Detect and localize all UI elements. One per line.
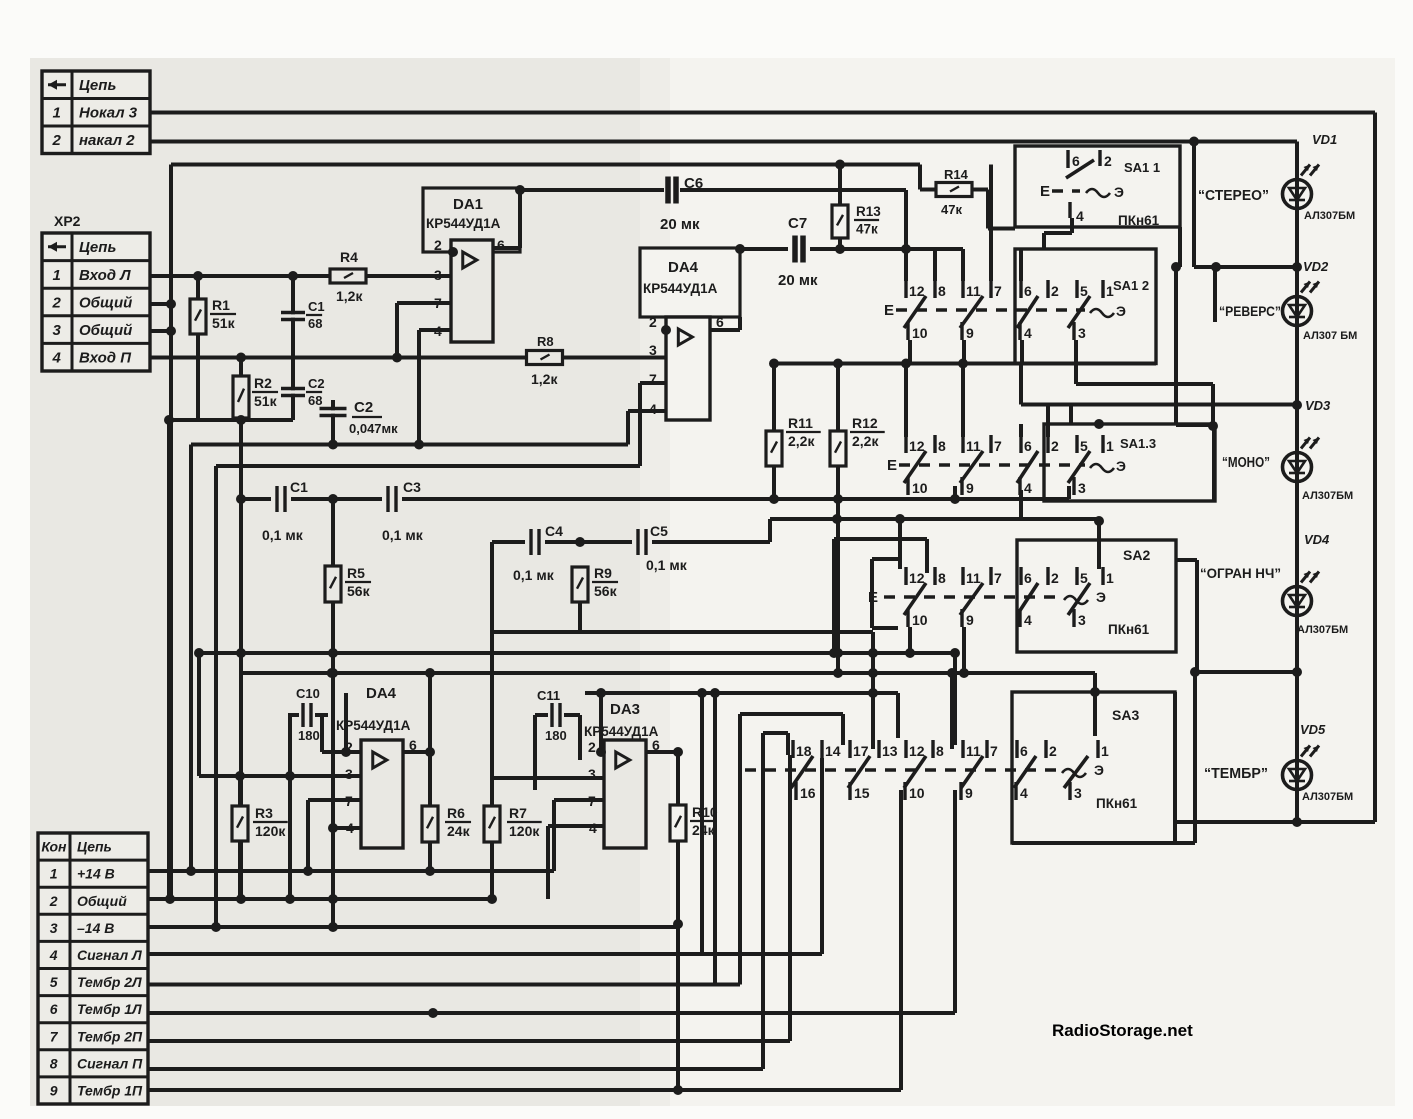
svg-text:Вход П: Вход П xyxy=(79,350,132,367)
svg-text:ХР2: ХР2 xyxy=(54,213,81,229)
svg-text:Нокал 3: Нокал 3 xyxy=(79,105,138,122)
svg-text:SA1 1: SA1 1 xyxy=(1124,160,1160,175)
svg-text:R1: R1 xyxy=(212,297,230,313)
svg-text:56к: 56к xyxy=(594,583,618,599)
svg-text:12: 12 xyxy=(909,743,925,759)
svg-text:КР544УД1А: КР544УД1А xyxy=(584,724,659,739)
svg-text:0,1 мк: 0,1 мк xyxy=(513,567,555,583)
svg-text:Общий: Общий xyxy=(79,322,132,339)
svg-text:С1: С1 xyxy=(308,299,325,314)
svg-text:6: 6 xyxy=(1024,438,1032,454)
svg-text:8: 8 xyxy=(938,283,946,299)
svg-text:8: 8 xyxy=(938,438,946,454)
svg-text:13: 13 xyxy=(882,743,898,759)
svg-text:5: 5 xyxy=(1080,570,1088,586)
svg-text:15: 15 xyxy=(854,785,870,801)
svg-text:4: 4 xyxy=(52,350,62,367)
svg-text:КР544УД1А: КР544УД1А xyxy=(643,281,718,296)
svg-text:11: 11 xyxy=(966,570,981,586)
svg-text:6: 6 xyxy=(1072,153,1080,169)
svg-text:18: 18 xyxy=(796,743,812,759)
svg-text:2: 2 xyxy=(434,237,442,253)
svg-text:DA4: DA4 xyxy=(366,685,397,702)
svg-text:R6: R6 xyxy=(447,805,465,821)
svg-text:Е: Е xyxy=(884,302,894,319)
svg-text:DA3: DA3 xyxy=(610,701,640,718)
svg-text:2: 2 xyxy=(1051,283,1059,299)
svg-text:2: 2 xyxy=(52,294,62,311)
svg-text:6: 6 xyxy=(1024,570,1032,586)
svg-text:8: 8 xyxy=(938,570,946,586)
svg-text:9: 9 xyxy=(966,325,974,341)
svg-text:Кон: Кон xyxy=(41,839,67,855)
svg-text:АЛ307БМ: АЛ307БМ xyxy=(1297,624,1348,636)
svg-text:9: 9 xyxy=(966,612,974,628)
svg-text:120к: 120к xyxy=(255,823,286,839)
svg-text:С2: С2 xyxy=(308,376,325,391)
svg-text:R12: R12 xyxy=(852,415,878,431)
svg-text:16: 16 xyxy=(800,785,816,801)
svg-text:С7: С7 xyxy=(788,215,807,232)
svg-text:2: 2 xyxy=(649,314,657,330)
svg-text:51к: 51к xyxy=(254,393,278,409)
svg-text:7: 7 xyxy=(50,1028,59,1044)
svg-text:0,047мк: 0,047мк xyxy=(349,421,398,436)
svg-text:4: 4 xyxy=(49,947,58,963)
svg-text:68: 68 xyxy=(308,316,322,331)
svg-text:180: 180 xyxy=(298,728,320,743)
svg-text:7: 7 xyxy=(994,570,1002,586)
svg-text:VD2: VD2 xyxy=(1303,259,1329,274)
svg-text:4: 4 xyxy=(1020,785,1028,801)
svg-text:3: 3 xyxy=(50,920,58,936)
svg-text:4: 4 xyxy=(1024,612,1032,628)
svg-text:0,1 мк: 0,1 мк xyxy=(382,527,424,543)
svg-text:+14 В: +14 В xyxy=(77,866,115,882)
svg-text:10: 10 xyxy=(909,785,925,801)
svg-text:КР544УД1А: КР544УД1А xyxy=(426,216,501,231)
svg-text:SA3: SA3 xyxy=(1112,707,1139,723)
svg-text:АЛ307 БМ: АЛ307 БМ xyxy=(1303,330,1357,342)
svg-text:“РЕВЕРС”: “РЕВЕРС” xyxy=(1219,304,1281,319)
svg-text:Тембр 1П: Тембр 1П xyxy=(77,1082,143,1098)
svg-text:накал 2: накал 2 xyxy=(79,132,135,149)
svg-text:0,1 мк: 0,1 мк xyxy=(646,557,688,573)
svg-text:Тембр 2Л: Тембр 2Л xyxy=(77,974,142,990)
svg-text:“СТЕРЕО”: “СТЕРЕО” xyxy=(1198,188,1269,204)
svg-text:5: 5 xyxy=(1080,283,1088,299)
svg-text:Э: Э xyxy=(1116,458,1126,474)
svg-text:С10: С10 xyxy=(296,686,320,701)
svg-text:3: 3 xyxy=(1078,480,1086,496)
svg-text:17: 17 xyxy=(853,743,869,759)
svg-text:8: 8 xyxy=(936,743,944,759)
svg-text:АЛ307БМ: АЛ307БМ xyxy=(1302,490,1353,502)
svg-text:С1: С1 xyxy=(290,479,308,495)
svg-text:SA2: SA2 xyxy=(1123,547,1150,563)
svg-text:12: 12 xyxy=(909,283,925,299)
svg-text:4: 4 xyxy=(1024,325,1032,341)
svg-text:Е: Е xyxy=(1040,183,1050,200)
svg-text:14: 14 xyxy=(825,743,841,759)
svg-text:12: 12 xyxy=(909,570,925,586)
svg-text:DA1: DA1 xyxy=(453,196,483,213)
svg-text:7: 7 xyxy=(994,438,1002,454)
svg-text:С6: С6 xyxy=(684,175,703,192)
svg-text:SA1.3: SA1.3 xyxy=(1120,436,1156,451)
svg-text:1: 1 xyxy=(1106,438,1114,454)
svg-text:Сигнал П: Сигнал П xyxy=(77,1055,143,1071)
svg-text:6: 6 xyxy=(716,314,724,330)
svg-text:11: 11 xyxy=(966,743,981,759)
svg-text:“ОГРАН НЧ”: “ОГРАН НЧ” xyxy=(1200,566,1281,581)
svg-text:Общий: Общий xyxy=(79,294,132,311)
svg-text:0,1 мк: 0,1 мк xyxy=(262,527,304,543)
svg-text:6: 6 xyxy=(1020,743,1028,759)
svg-text:1: 1 xyxy=(53,267,61,284)
svg-text:“МОНО”: “МОНО” xyxy=(1222,455,1270,471)
svg-text:2: 2 xyxy=(1049,743,1057,759)
svg-text:10: 10 xyxy=(912,612,928,628)
svg-text:“ТЕМБР”: “ТЕМБР” xyxy=(1204,766,1268,782)
svg-text:10: 10 xyxy=(912,325,928,341)
svg-text:С3: С3 xyxy=(403,479,421,495)
svg-text:2: 2 xyxy=(1104,153,1112,169)
svg-text:VD3: VD3 xyxy=(1305,398,1331,413)
svg-text:R3: R3 xyxy=(255,805,273,821)
svg-text:2,2к: 2,2к xyxy=(788,433,815,449)
svg-text:9: 9 xyxy=(965,785,973,801)
svg-text:С11: С11 xyxy=(537,688,560,703)
svg-text:Цепь: Цепь xyxy=(79,239,116,256)
svg-text:9: 9 xyxy=(50,1082,58,1098)
svg-text:3: 3 xyxy=(1074,785,1082,801)
svg-text:51к: 51к xyxy=(212,315,236,331)
svg-text:47к: 47к xyxy=(856,222,878,237)
svg-text:R13: R13 xyxy=(856,204,881,219)
svg-text:2: 2 xyxy=(1051,438,1059,454)
svg-text:Сигнал Л: Сигнал Л xyxy=(77,947,142,963)
svg-text:ПКн61: ПКн61 xyxy=(1108,622,1150,637)
svg-text:2,2к: 2,2к xyxy=(852,433,879,449)
svg-text:SA1 2: SA1 2 xyxy=(1113,278,1149,293)
svg-text:Вход Л: Вход Л xyxy=(79,267,131,284)
svg-text:1,2к: 1,2к xyxy=(336,288,363,304)
svg-text:11: 11 xyxy=(966,438,981,454)
svg-text:ПКн61: ПКн61 xyxy=(1118,213,1160,228)
svg-text:2: 2 xyxy=(52,132,62,149)
svg-text:8: 8 xyxy=(50,1055,58,1071)
svg-text:2: 2 xyxy=(588,739,596,755)
svg-text:1: 1 xyxy=(1106,570,1114,586)
svg-text:Цепь: Цепь xyxy=(77,839,112,855)
svg-text:DA4: DA4 xyxy=(668,259,699,276)
svg-text:1: 1 xyxy=(53,105,61,122)
svg-text:5: 5 xyxy=(1080,438,1088,454)
svg-text:R7: R7 xyxy=(509,805,527,821)
svg-text:4: 4 xyxy=(1024,480,1032,496)
svg-text:6: 6 xyxy=(1024,283,1032,299)
svg-text:3: 3 xyxy=(1078,612,1086,628)
svg-text:VD5: VD5 xyxy=(1300,722,1326,737)
svg-text:6: 6 xyxy=(497,237,505,253)
svg-text:3: 3 xyxy=(53,322,62,339)
svg-text:180: 180 xyxy=(545,728,567,743)
svg-text:R4: R4 xyxy=(340,249,358,265)
svg-text:Э: Э xyxy=(1094,762,1104,778)
svg-text:47к: 47к xyxy=(941,202,962,217)
svg-text:10: 10 xyxy=(912,480,928,496)
svg-text:11: 11 xyxy=(966,283,981,299)
svg-text:VD1: VD1 xyxy=(1312,132,1337,147)
svg-text:R9: R9 xyxy=(594,565,612,581)
svg-text:7: 7 xyxy=(994,283,1002,299)
svg-text:Тембр 1Л: Тембр 1Л xyxy=(77,1001,142,1017)
svg-text:3: 3 xyxy=(1078,325,1086,341)
svg-text:3: 3 xyxy=(649,342,657,358)
svg-text:Э: Э xyxy=(1114,184,1124,200)
svg-text:R5: R5 xyxy=(347,565,365,581)
svg-text:Тембр 2П: Тембр 2П xyxy=(77,1028,143,1044)
svg-text:АЛ307БМ: АЛ307БМ xyxy=(1304,210,1355,222)
svg-text:6: 6 xyxy=(50,1001,58,1017)
svg-text:ПКн61: ПКн61 xyxy=(1096,796,1138,811)
svg-text:R11: R11 xyxy=(788,415,813,431)
svg-text:Э: Э xyxy=(1116,303,1126,319)
svg-text:R8: R8 xyxy=(537,334,554,349)
svg-text:Цепь: Цепь xyxy=(79,77,116,94)
svg-text:24к: 24к xyxy=(447,823,471,839)
svg-text:120к: 120к xyxy=(509,823,540,839)
svg-text:Е: Е xyxy=(887,457,897,474)
svg-text:С5: С5 xyxy=(650,523,668,539)
svg-text:R2: R2 xyxy=(254,375,272,391)
svg-text:1: 1 xyxy=(50,866,58,882)
svg-text:2: 2 xyxy=(1051,570,1059,586)
svg-text:Э: Э xyxy=(1096,589,1106,605)
svg-text:С4: С4 xyxy=(545,523,563,539)
svg-text:1,2к: 1,2к xyxy=(531,371,558,387)
svg-text:5: 5 xyxy=(50,974,58,990)
svg-text:12: 12 xyxy=(909,438,925,454)
svg-text:АЛ307БМ: АЛ307БМ xyxy=(1302,791,1353,803)
svg-text:1: 1 xyxy=(1101,743,1109,759)
svg-text:2: 2 xyxy=(49,893,58,909)
svg-text:20 мк: 20 мк xyxy=(778,272,818,289)
svg-text:VD4: VD4 xyxy=(1304,532,1330,547)
svg-text:56к: 56к xyxy=(347,583,371,599)
svg-text:С2: С2 xyxy=(354,399,373,416)
svg-text:–14 В: –14 В xyxy=(77,920,114,936)
svg-text:RadioStorage.net: RadioStorage.net xyxy=(1052,1021,1193,1040)
svg-text:R14: R14 xyxy=(944,167,969,182)
svg-text:Общий: Общий xyxy=(77,893,127,909)
svg-text:4: 4 xyxy=(1076,208,1084,224)
svg-text:9: 9 xyxy=(966,480,974,496)
svg-text:68: 68 xyxy=(308,393,322,408)
svg-text:20 мк: 20 мк xyxy=(660,216,700,233)
svg-text:7: 7 xyxy=(990,743,998,759)
svg-text:3: 3 xyxy=(434,267,442,283)
